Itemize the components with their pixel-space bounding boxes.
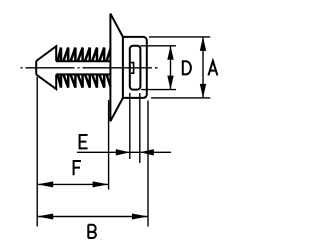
label B xyxy=(88,225,96,238)
extension line D top xyxy=(140,45,176,47)
shank root line bottom xyxy=(56,73,110,75)
extension line A top xyxy=(149,36,210,38)
barbs top xyxy=(58,48,111,62)
dimension A arrow up xyxy=(200,37,206,51)
centerline xyxy=(21,67,158,69)
dimension B arrow right xyxy=(132,214,148,220)
dimension D arrow up xyxy=(167,46,173,60)
label D xyxy=(183,61,191,74)
barbs bottom xyxy=(58,74,111,87)
dimension E line xyxy=(77,151,171,153)
label F xyxy=(74,161,81,175)
slot tab xyxy=(130,63,134,74)
dimension B arrow left xyxy=(37,214,53,220)
cone top xyxy=(36,46,56,61)
dimension A line xyxy=(202,37,204,98)
dimension E arrow right xyxy=(116,149,130,155)
extension line A bottom xyxy=(151,97,210,99)
dimension F arrow left xyxy=(37,181,53,187)
dimension D arrow down xyxy=(167,76,173,90)
flange xyxy=(110,14,123,122)
cone bottom xyxy=(36,74,56,89)
head slot xyxy=(130,46,141,90)
tip face xyxy=(35,61,37,75)
dimension F arrow right xyxy=(93,181,109,187)
extension line slot right xyxy=(139,93,141,163)
label E xyxy=(80,135,88,148)
extension line head right xyxy=(147,101,149,227)
dimension A arrow down xyxy=(200,84,206,98)
dimension F line xyxy=(37,183,108,185)
shank root line top xyxy=(56,60,110,62)
extension line tip xyxy=(36,77,38,227)
extension line slot left xyxy=(129,93,131,159)
dimension B line xyxy=(37,216,148,218)
extension line D bottom xyxy=(141,89,176,91)
head outline xyxy=(123,37,147,98)
extension line F xyxy=(108,100,110,190)
dimension E arrow left xyxy=(140,149,154,155)
dimension D line xyxy=(170,46,172,90)
label A xyxy=(208,61,217,76)
